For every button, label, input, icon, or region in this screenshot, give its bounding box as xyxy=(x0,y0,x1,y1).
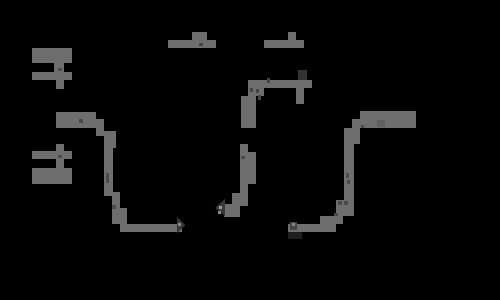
node plateau N1 xyxy=(360,111,416,128)
polarity plus P1 xyxy=(296,70,307,104)
terminal T1 xyxy=(168,32,216,48)
current arrow A1 xyxy=(177,217,185,233)
wire middle top xyxy=(241,78,312,128)
terminal T2 xyxy=(264,32,304,48)
wire right loop xyxy=(288,119,360,239)
battery B2 xyxy=(32,144,72,184)
wire left loop xyxy=(56,112,182,232)
current arrow A2 xyxy=(215,199,225,216)
capacitor C1 lower plate xyxy=(240,144,256,206)
battery B1 xyxy=(32,48,72,89)
current arrow A3 xyxy=(290,222,297,230)
wire middle bottom curl xyxy=(224,193,240,217)
